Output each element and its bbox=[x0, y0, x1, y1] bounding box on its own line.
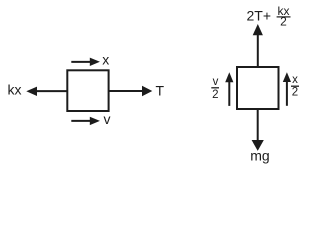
svg-text:kx: kx bbox=[8, 82, 22, 98]
arrow kx (left, pointing left) bbox=[26, 87, 67, 96]
arrow mg (bottom, pointing down) bbox=[252, 109, 264, 151]
arrow x/2 (right side of block B, pointing up) bbox=[283, 72, 291, 106]
svg-text:T: T bbox=[156, 83, 165, 99]
arrow v/2 (left side of block B, pointing up) bbox=[225, 72, 233, 106]
svg-text:v: v bbox=[213, 76, 219, 88]
svg-text:mg: mg bbox=[250, 148, 269, 164]
label 2T+kx/2 bbox=[247, 4, 291, 29]
svg-text:x: x bbox=[292, 74, 298, 86]
svg-text:v: v bbox=[104, 111, 111, 127]
svg-text:2: 2 bbox=[212, 89, 218, 101]
label v/2 bbox=[211, 76, 219, 101]
block A (left free-body box) bbox=[67, 70, 108, 111]
label x/2 bbox=[291, 74, 299, 98]
arrow 2T+kx/2 (top, pointing up) bbox=[253, 24, 263, 67]
arrow x (top, pointing right) bbox=[71, 58, 100, 66]
svg-text:2: 2 bbox=[280, 15, 287, 29]
svg-text:2: 2 bbox=[292, 86, 298, 98]
arrow v (bottom, pointing right) bbox=[71, 117, 100, 125]
arrow T (right, pointing right) bbox=[109, 86, 153, 97]
svg-text:x: x bbox=[102, 52, 109, 68]
block B (right free-body box) bbox=[237, 67, 279, 109]
svg-text:2T+: 2T+ bbox=[247, 8, 272, 24]
